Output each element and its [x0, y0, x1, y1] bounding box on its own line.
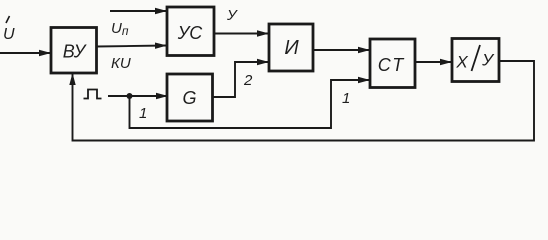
- wire И to СТ: [313, 49, 369, 51]
- block US (УС): [167, 7, 214, 56]
- block BU (ВУ): [51, 28, 97, 74]
- wire junction to СТ input 1: [130, 80, 370, 128]
- block ST (СТ): [370, 39, 415, 88]
- svg-text:1: 1: [139, 105, 147, 122]
- svg-text:Х: Х: [455, 53, 468, 72]
- svg-text:1: 1: [342, 90, 350, 107]
- svg-text:СТ: СТ: [378, 55, 405, 75]
- block X/Y (Х/У): [452, 39, 499, 82]
- svg-text:УС: УС: [177, 23, 204, 43]
- svg-text:U: U: [3, 26, 15, 43]
- junction dot: [127, 93, 133, 99]
- svg-text:КU: КU: [111, 55, 131, 72]
- svg-text:У: У: [226, 7, 238, 24]
- svg-text:2: 2: [243, 72, 253, 89]
- wire Uп to УС: [110, 10, 166, 12]
- wire G to И (2): [213, 62, 268, 97]
- wire pulse to G: [108, 95, 167, 97]
- pulse symbol: [84, 90, 102, 99]
- svg-text:Uп: Uп: [111, 20, 129, 38]
- svg-text:У: У: [481, 51, 495, 70]
- block I (И): [269, 24, 313, 71]
- svg-text:ВУ: ВУ: [63, 42, 87, 62]
- svg-text:И: И: [284, 37, 299, 59]
- feedback wire Х/У to ВУ: [73, 61, 535, 141]
- wire СТ to Х/У: [415, 61, 451, 63]
- block G: [167, 74, 213, 121]
- wire input U to ВУ: [0, 52, 50, 54]
- svg-text:G: G: [182, 88, 196, 108]
- wire ВУ to УС (КU): [97, 46, 167, 47]
- tick above U: [6, 16, 10, 23]
- wire УС to И (У): [214, 33, 268, 35]
